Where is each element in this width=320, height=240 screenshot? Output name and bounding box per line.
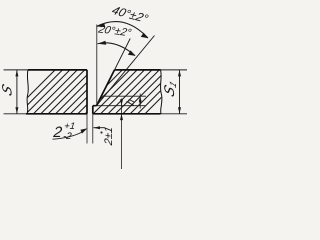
svg-text:S1: S1 [163,76,179,101]
svg-text:40°±2°: 40°±2° [110,3,151,25]
svg-text:20°±2°: 20°±2° [96,23,133,39]
svg-text:-2: -2 [63,131,73,142]
svg-text:2±1: 2±1 [103,125,115,147]
svg-text:S: S [0,82,15,99]
